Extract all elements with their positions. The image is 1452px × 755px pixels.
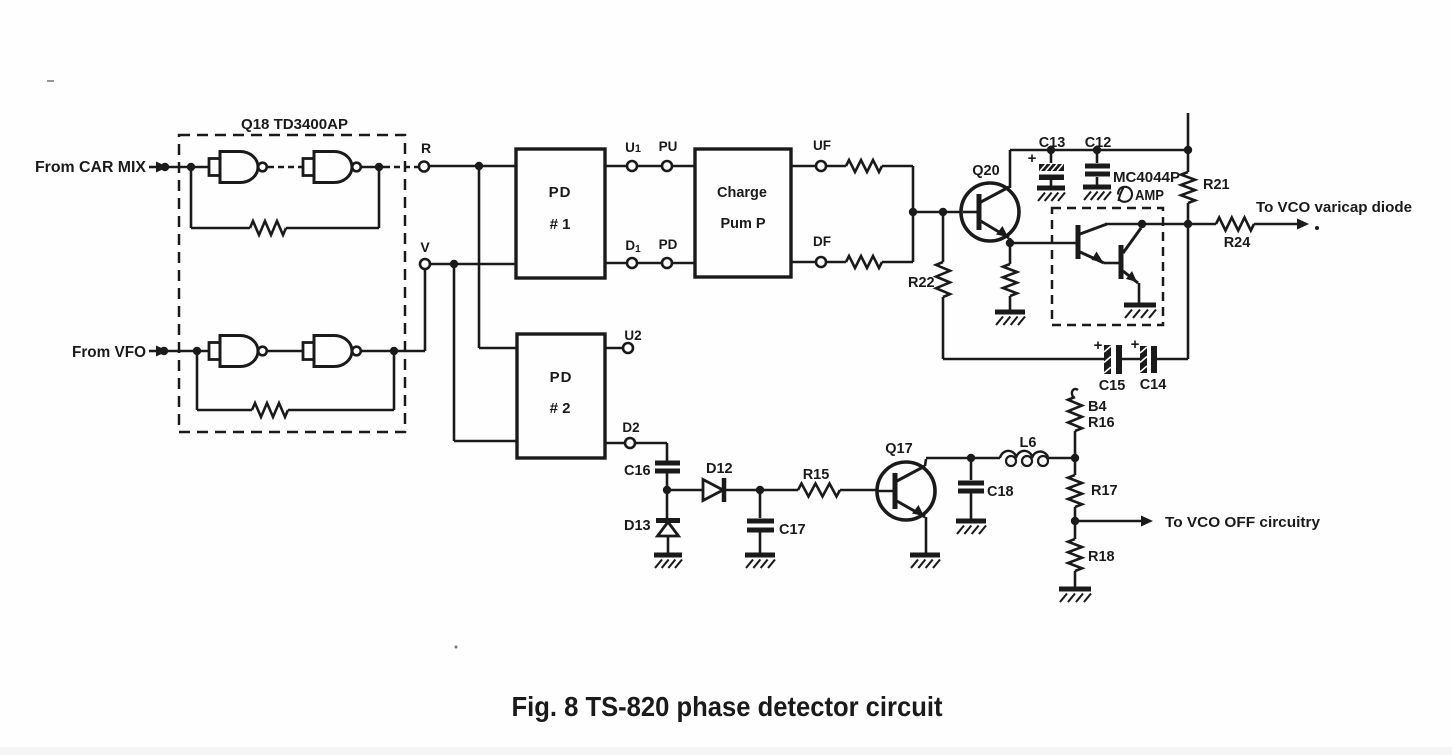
charge pump box <box>695 149 791 277</box>
label To VCO varicap diode <box>1256 200 1412 216</box>
wire Q20 collector up <box>1009 150 1012 188</box>
node DF <box>816 257 826 267</box>
svg-text:D2: D2 <box>622 420 639 435</box>
plus sign C13 <box>1028 150 1037 167</box>
svg-text:From CAR MIX: From CAR MIX <box>35 159 147 176</box>
junction VCO OFF tap dot <box>1071 517 1079 525</box>
svg-text:PD: PD <box>659 237 678 252</box>
label B4 <box>1088 399 1107 415</box>
node R <box>419 162 429 172</box>
IC Q18 TD3400AP dashed outline <box>179 135 405 432</box>
label Pum P <box>720 216 765 232</box>
label R24 <box>1224 235 1251 251</box>
resistor Q20 emitter <box>1003 243 1017 311</box>
resistor R18 <box>1068 521 1082 588</box>
svg-text:Q20: Q20 <box>972 163 999 179</box>
ground under C17 <box>745 555 775 568</box>
svg-text:C13: C13 <box>1039 135 1066 151</box>
wire C17 node to R15 <box>760 489 798 492</box>
wire U2 pin <box>605 347 623 350</box>
junction G4 output dot <box>390 347 398 355</box>
junction output node dot <box>1184 220 1192 228</box>
label C15 <box>1099 378 1126 394</box>
svg-text:U1: U1 <box>625 140 641 155</box>
junction V rail dot <box>450 260 458 268</box>
resistor R17 <box>1068 458 1082 521</box>
ground under C13 <box>1037 188 1065 201</box>
node PD <box>662 258 672 268</box>
wire top rail <box>1010 149 1188 152</box>
wire output to R24 <box>1188 223 1216 226</box>
wire UF resistor to corner <box>882 165 913 168</box>
wire R21 top stub <box>1187 113 1190 172</box>
pin label D1 <box>625 238 641 255</box>
wire D1 pin <box>605 262 627 265</box>
label R15 <box>803 467 830 483</box>
svg-text:+: + <box>1131 336 1140 353</box>
junction CAR MIX input dot <box>161 163 169 171</box>
wire DF pin <box>791 261 816 264</box>
junction VFO input dot <box>160 347 168 355</box>
svg-text:Q17: Q17 <box>885 441 912 457</box>
junction D13/D12 node dot <box>663 486 671 494</box>
wire R21 bottom <box>1187 203 1190 224</box>
junction C17 node dot <box>756 486 764 494</box>
wire D12 to C17 node <box>724 489 760 492</box>
svg-text:MC4044P: MC4044P <box>1113 169 1180 186</box>
svg-text:C16: C16 <box>624 463 651 479</box>
wire feedback 2 left <box>197 351 252 410</box>
junction gate G1 input dot <box>187 163 195 171</box>
wire UF pin <box>791 165 816 168</box>
junction Q20 emitter dot <box>1006 239 1014 247</box>
svg-text:AMP: AMP <box>1135 188 1164 204</box>
NAND gate G3 <box>209 336 267 367</box>
wire bottom loop left <box>943 358 1105 361</box>
label C12 <box>1085 135 1112 151</box>
label R22 <box>908 275 935 291</box>
junction summing node dot <box>909 208 917 216</box>
label C16 <box>624 463 651 479</box>
wire VCO OFF tap <box>1075 516 1153 527</box>
wire C15 to C14 <box>1122 358 1141 361</box>
label R18 <box>1088 549 1115 565</box>
svg-text:To VCO OFF circuitry: To VCO OFF circuitry <box>1165 515 1320 531</box>
svg-text:Q18 TD3400AP: Q18 TD3400AP <box>241 116 348 133</box>
junction T2 collector dot <box>1138 220 1146 228</box>
capacitor C17 <box>747 490 774 553</box>
label R21 <box>1203 177 1230 193</box>
node V <box>420 259 430 269</box>
ground under D13 <box>654 555 682 568</box>
label C18 <box>987 484 1014 500</box>
transistor T1 (amp) <box>1078 224 1107 263</box>
wire UF to resistor <box>826 165 846 168</box>
wire U1 pin <box>605 165 627 168</box>
label C13 <box>1039 135 1066 151</box>
diode D13 <box>656 490 680 553</box>
wire R rail to PD1 <box>429 165 516 168</box>
junction C12 top dot <box>1093 146 1101 154</box>
label Q18 TD3400AP <box>241 116 348 133</box>
wire R24 to arrow <box>1254 223 1297 226</box>
wire D2 to C16 <box>635 443 667 461</box>
node D1 <box>627 258 637 268</box>
svg-text:R22: R22 <box>908 275 935 291</box>
arrow VFO input <box>149 346 168 357</box>
node D2 <box>625 438 635 448</box>
svg-text:B4: B4 <box>1088 399 1107 415</box>
svg-text:R16: R16 <box>1088 415 1115 431</box>
pin label UF <box>813 138 831 153</box>
svg-text:R18: R18 <box>1088 549 1115 565</box>
wire V branch to PD2 <box>454 264 517 441</box>
phase detector PD #1 box <box>516 149 605 278</box>
input label From VFO <box>72 344 146 361</box>
capacitor C18 <box>958 458 984 520</box>
label MC4044P <box>1113 169 1180 186</box>
svg-text:UF: UF <box>813 138 831 153</box>
label D13 <box>624 518 651 534</box>
label Q20 <box>972 163 999 179</box>
stray scan tick <box>455 646 458 649</box>
svg-text:Pum P: Pum P <box>720 216 765 232</box>
capacitor C16 <box>655 461 680 491</box>
svg-text:R: R <box>421 140 431 156</box>
wire DF resistor to corner <box>882 261 913 264</box>
resistor feedback 2 <box>252 403 288 417</box>
label #2 <box>550 400 571 417</box>
arrow CAR MIX input <box>149 162 168 173</box>
wire amp output node <box>1105 223 1188 226</box>
wire DF to resistor <box>826 261 846 264</box>
label C17 <box>779 522 806 538</box>
label no AMP <box>1118 187 1164 204</box>
svg-text:From VFO: From VFO <box>72 344 146 361</box>
capacitor C14 <box>1140 346 1157 373</box>
svg-text:D1: D1 <box>625 238 641 255</box>
label V <box>420 239 430 255</box>
junction top rail right dot <box>1184 146 1192 154</box>
ground under T2 <box>1124 305 1156 318</box>
svg-text:+: + <box>1094 337 1103 354</box>
wire summing node to Q20 base <box>913 211 963 214</box>
label R <box>421 140 431 156</box>
label PD (PD#2) <box>550 369 573 386</box>
label L6 <box>1020 435 1037 451</box>
wire T2 emitter down <box>1138 283 1141 304</box>
pin label D2 <box>622 420 639 435</box>
capacitor C12 <box>1085 150 1110 186</box>
label To VCO OFF circuitry <box>1165 515 1320 531</box>
resistor R21 <box>1181 172 1195 203</box>
input label From CAR MIX <box>35 159 147 176</box>
wire Q17 collector up <box>925 458 971 466</box>
svg-text:PD: PD <box>550 369 573 386</box>
resistor UF <box>846 160 882 172</box>
arrow to VCO varicap <box>1297 219 1309 230</box>
resistor R24 <box>1216 218 1254 231</box>
stray scan dash <box>47 80 54 82</box>
resistor DF <box>846 256 882 268</box>
svg-text:C14: C14 <box>1140 377 1167 393</box>
label R16 <box>1088 415 1115 431</box>
plus sign C14 <box>1131 336 1140 353</box>
resistor R16 with B4 stub <box>1068 389 1082 458</box>
ground under C12 <box>1083 187 1111 200</box>
wire D1-PD <box>637 262 662 265</box>
wire CAR MIX input <box>166 166 209 169</box>
wire bottom loop right <box>1157 224 1188 359</box>
svg-text:# 1: # 1 <box>550 216 571 233</box>
wire up to node V <box>424 269 427 351</box>
pin label DF <box>813 234 831 249</box>
period after arrow <box>1315 226 1319 230</box>
wire G1 to G2 <box>268 166 303 169</box>
wire PD to charge pump <box>672 262 695 265</box>
inductor L6 <box>1000 451 1048 466</box>
wire VFO input <box>166 350 209 353</box>
label D12 <box>706 461 733 477</box>
diode D12 <box>703 478 724 502</box>
svg-text:C15: C15 <box>1099 378 1126 394</box>
NAND gate G1 <box>209 152 267 183</box>
ground under Q20 emitter resistor <box>995 312 1025 325</box>
NAND gate G2 <box>303 152 361 183</box>
svg-text:U2: U2 <box>624 328 641 343</box>
label #1 <box>550 216 571 233</box>
resistor R22 <box>936 212 950 359</box>
svg-text:To VCO varicap diode: To VCO varicap diode <box>1256 200 1412 216</box>
ground under C18 <box>956 521 986 534</box>
wire G2 output <box>361 166 384 169</box>
caption Fig. 8 TS-820 phase detector circuit <box>512 691 943 722</box>
wire Q20 emitter node <box>1009 238 1012 243</box>
junction gate G3 input dot <box>193 347 201 355</box>
capacitor C15 <box>1104 345 1122 374</box>
pin label PU <box>659 139 678 154</box>
svg-text:V: V <box>420 239 430 255</box>
wire PU to charge pump <box>672 165 695 168</box>
NAND gate G4 <box>303 336 361 367</box>
wire T1 emitter to T2 base <box>1104 262 1119 265</box>
node U1 <box>627 161 637 171</box>
svg-text:PD: PD <box>549 184 572 201</box>
svg-text:PU: PU <box>659 139 678 154</box>
node U2 <box>623 343 633 353</box>
wire feedback 2 right <box>288 351 394 410</box>
phase detector PD #2 box <box>517 334 605 458</box>
svg-text:+: + <box>1028 150 1037 167</box>
wire G3 to G4 <box>268 350 303 353</box>
svg-text:C12: C12 <box>1085 135 1112 151</box>
junction C13 top dot <box>1047 146 1055 154</box>
wire feedback 1 right <box>286 167 379 228</box>
capacitor C13 <box>1039 150 1064 187</box>
wire Q17 emitter down <box>925 517 928 553</box>
label Q17 <box>885 441 912 457</box>
svg-text:DF: DF <box>813 234 831 249</box>
ground under R18 <box>1059 589 1091 602</box>
junction C18/L6 node dot <box>967 454 975 462</box>
ground under Q17 <box>910 555 940 568</box>
pin label U2 <box>624 328 641 343</box>
junction R22 top dot <box>939 208 947 216</box>
wire G4 output <box>361 350 425 353</box>
wire node to L6 <box>971 457 1000 460</box>
svg-text:Charge: Charge <box>717 185 767 201</box>
label Charge <box>717 185 767 201</box>
label R17 <box>1091 483 1118 499</box>
dashed box MC4044P amp <box>1052 208 1163 325</box>
wire L6 to R16 node <box>1048 457 1075 460</box>
transistor T2 (amp) <box>1121 228 1141 283</box>
svg-text:D12: D12 <box>706 461 733 477</box>
wire to node R <box>384 166 419 169</box>
wire node to D12 <box>667 489 703 492</box>
resistor R15 <box>798 484 840 497</box>
svg-text:# 2: # 2 <box>550 400 571 417</box>
label PD (PD#1) <box>549 184 572 201</box>
junction R rail dot <box>475 162 483 170</box>
wire feedback 1 left <box>191 167 250 228</box>
label C14 <box>1140 377 1167 393</box>
svg-text:R24: R24 <box>1224 235 1251 251</box>
svg-text:R21: R21 <box>1203 177 1230 193</box>
junction G2 output dot <box>375 163 383 171</box>
wire UF/DF summing vertical <box>912 166 915 262</box>
resistor feedback 1 <box>250 221 286 235</box>
wire D2 pin <box>605 442 625 445</box>
pin label U1 <box>625 140 641 155</box>
node PU <box>662 161 672 171</box>
wire V rail to PD1 <box>430 263 516 266</box>
svg-text:C17: C17 <box>779 522 806 538</box>
transistor Q17 <box>877 462 935 520</box>
svg-text:Fig. 8 TS-820 phase detecto: Fig. 8 TS-820 phase detector circuit <box>512 691 943 722</box>
svg-text:L6: L6 <box>1020 435 1037 451</box>
wire U1-PU <box>637 165 662 168</box>
pin label PD <box>659 237 678 252</box>
svg-text:D13: D13 <box>624 518 651 534</box>
svg-text:R15: R15 <box>803 467 830 483</box>
svg-text:C18: C18 <box>987 484 1014 500</box>
junction L6/R16 node dot <box>1071 454 1079 462</box>
transistor Q20 <box>961 183 1019 241</box>
node UF <box>816 161 826 171</box>
bottom scan strip <box>0 747 1452 755</box>
wire R15 to Q17 <box>840 489 878 492</box>
wire base amp T1 <box>1010 242 1076 245</box>
wire R branch to PD2 <box>479 166 517 348</box>
plus sign C15 <box>1094 337 1103 354</box>
svg-text:R17: R17 <box>1091 483 1118 499</box>
